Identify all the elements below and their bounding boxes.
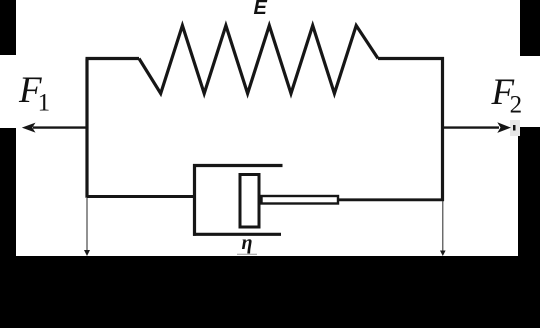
dimension line right (thin)	[442, 201, 444, 255]
black patch left-mid	[0, 128, 16, 257]
arrow F1 (left, pointing left)	[22, 123, 87, 133]
wire right vertical of loop	[441, 57, 444, 201]
dashpot piston plate	[240, 175, 259, 228]
wire top-left horizontal	[86, 57, 140, 60]
wire bottom-left to dashpot	[87, 195, 195, 198]
black patch top-right	[520, 0, 540, 56]
arrow F2 (right, pointing right)	[443, 122, 511, 133]
black tick in gray box	[513, 125, 516, 131]
dimension line left (thin)	[86, 198, 88, 255]
dashpot piston rod (outlined)	[262, 196, 339, 204]
dashpot cylinder left wall	[193, 164, 196, 236]
wire rod to right vertical	[338, 198, 444, 201]
gray box near F2 arrow tip	[510, 120, 520, 136]
svg-text:E: E	[254, 0, 268, 19]
wire top-right horizontal	[378, 57, 444, 60]
black bar bottom letterbox	[0, 256, 540, 328]
black patch top-left	[0, 0, 16, 55]
dashpot cylinder top wall	[193, 164, 283, 167]
black patch right-mid	[518, 127, 540, 257]
dashpot cylinder bottom wall	[193, 233, 281, 236]
dimension line right foot	[440, 251, 446, 257]
dimension line left foot	[84, 250, 90, 256]
faint line under eta	[237, 253, 257, 255]
spring E zigzag	[139, 26, 378, 94]
svg-text:η: η	[242, 232, 253, 254]
wire left vertical of loop	[85, 59, 88, 198]
